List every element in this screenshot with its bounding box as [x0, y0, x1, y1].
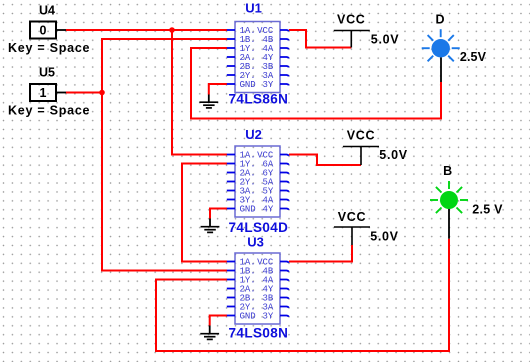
wire U4 net branch to U2 pin 1A [172, 30, 227, 155]
svg-text:74LS08N: 74LS08N [229, 326, 289, 341]
probe D (blue LED indicator), 2.5V [422, 12, 487, 64]
svg-text:VCC: VCC [347, 129, 376, 143]
IC U2 74LS04D [227, 127, 289, 235]
svg-text:3Y: 3Y [262, 80, 273, 90]
power VCC supply for U3, 5.0V [334, 210, 399, 245]
ground below U1 [199, 95, 218, 108]
svg-text:5.0V: 5.0V [370, 230, 399, 244]
switch U5 (key 1) [8, 66, 90, 118]
probe D lead (black) [440, 57, 442, 82]
svg-text:74LS86N: 74LS86N [229, 92, 289, 107]
svg-text:U4: U4 [39, 4, 55, 18]
wire U4 output stub (black) [56, 29, 66, 31]
wire U5 net to U1 pin 1B and U3 pin 1B [102, 39, 227, 271]
svg-text:D: D [435, 12, 444, 26]
svg-text:U1: U1 [245, 0, 262, 15]
svg-text:U2: U2 [245, 127, 262, 142]
probe B lead (black) [448, 208, 450, 238]
switch U4 (key 0) [8, 4, 90, 56]
svg-text:GND: GND [240, 312, 256, 322]
svg-text:2.5 V: 2.5 V [472, 203, 503, 217]
wire U3 GND pin to ground [210, 316, 227, 326]
ground below U2 [201, 219, 220, 233]
svg-text:1: 1 [40, 86, 47, 100]
svg-text:Key = Space: Key = Space [8, 104, 90, 118]
svg-text:GND: GND [240, 205, 256, 215]
wire U1 GND pin to ground [209, 84, 227, 95]
wire U4 to U1 pin 1A [66, 29, 227, 31]
wire U1 VCC pin to VCC supply [289, 30, 351, 48]
svg-text:4Y: 4Y [262, 205, 273, 215]
svg-text:0: 0 [40, 24, 47, 38]
power VCC supply for U2, 5.0V [343, 129, 408, 166]
svg-text:VCC: VCC [338, 210, 367, 224]
svg-text:5.0V: 5.0V [379, 148, 408, 162]
svg-text:U3: U3 [247, 235, 264, 250]
IC U1 74LS86N [227, 0, 289, 106]
svg-text:U5: U5 [39, 66, 55, 80]
wire U5 output stub (black) [56, 92, 66, 94]
wire U1 pin 1Y to probe D [191, 48, 441, 119]
wire U2 VCC pin to VCC supply [289, 155, 361, 166]
junction U4 net [169, 27, 175, 33]
wire U5 to junction [66, 92, 102, 94]
power VCC supply for U1, 5.0V [334, 13, 400, 48]
junction U5 net [99, 90, 105, 96]
wire U3 pin 1Y to probe B [156, 239, 449, 351]
svg-text:3Y: 3Y [262, 312, 273, 322]
ground below U3 [200, 326, 219, 340]
IC U3 74LS08N [227, 235, 289, 341]
svg-text:VCC: VCC [337, 13, 366, 27]
wire U3 VCC pin to VCC supply [289, 245, 352, 262]
svg-text:B: B [443, 164, 452, 178]
svg-text:GND: GND [240, 80, 256, 90]
svg-text:74LS04D: 74LS04D [229, 220, 289, 235]
wire U2 GND pin to ground [210, 209, 227, 219]
svg-text:5.0V: 5.0V [371, 32, 400, 46]
svg-text:Key = Space: Key = Space [8, 41, 90, 55]
probe B (green LED indicator), 2.5 V [430, 164, 503, 217]
wire U2 pin 1Y to U3 pin 1A [182, 164, 227, 262]
svg-text:2.5V: 2.5V [460, 50, 487, 64]
